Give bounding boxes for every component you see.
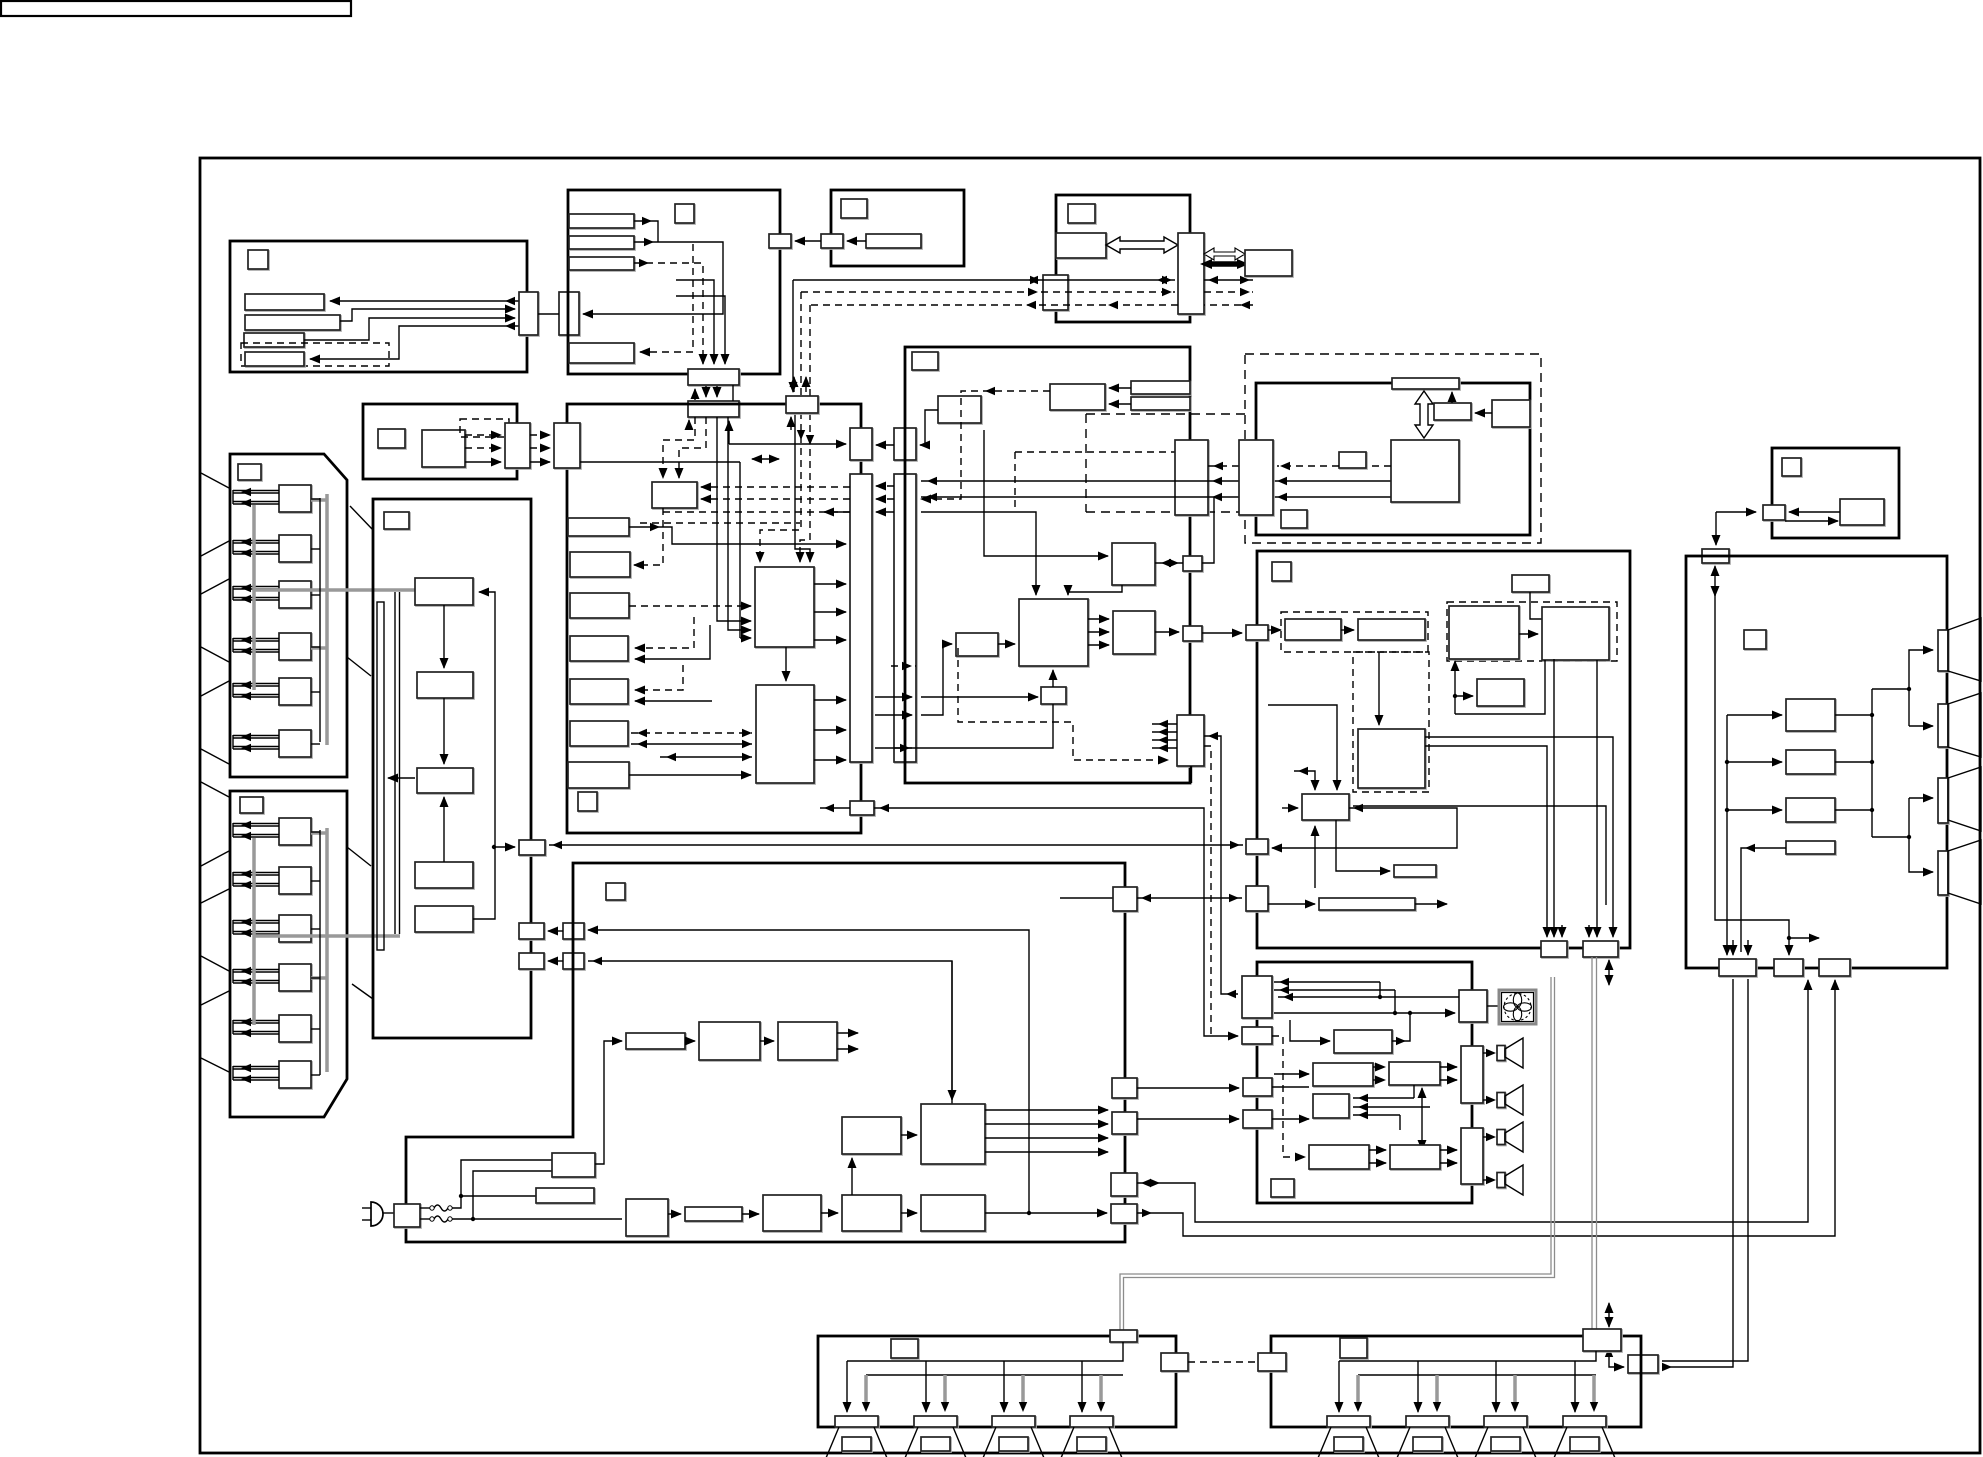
dashed rail top bbox=[1086, 413, 1245, 415]
hollow double arrow H bbox=[1106, 237, 1178, 253]
wire E right box to small box bbox=[1475, 412, 1492, 414]
riser from box3 bbox=[1553, 659, 1555, 880]
block PR outline bbox=[1686, 556, 1947, 968]
dashed rows L-R row2 bbox=[1369, 1149, 1386, 1151]
PT box bbox=[1840, 499, 1884, 525]
DG box B bbox=[1050, 384, 1105, 410]
connector P-left B bbox=[1246, 839, 1268, 854]
P top small box bbox=[1512, 575, 1549, 592]
DG center big box bbox=[1019, 599, 1088, 666]
connector E-left bbox=[1239, 440, 1273, 515]
wire H row3c dashed bbox=[1204, 304, 1253, 306]
P dashed group 3 bbox=[1447, 602, 1617, 661]
wire P connector to box1 bbox=[1268, 629, 1281, 631]
SPR feed arrows 2 bbox=[1417, 1361, 1419, 1412]
PS bar L bbox=[685, 1207, 742, 1221]
T2 gray bus bbox=[325, 828, 329, 1072]
connector SPL-top bbox=[1110, 1330, 1137, 1342]
switch box dashed feeds bbox=[701, 486, 850, 488]
dashed rail lower bbox=[1086, 511, 1243, 513]
SPL output rect 2 bbox=[914, 1416, 957, 1427]
block A dashed group bbox=[241, 343, 389, 366]
wire boxright to conn2 bbox=[1155, 631, 1179, 633]
wire into conn1 left bbox=[494, 846, 515, 848]
block P label bbox=[1272, 562, 1291, 581]
block D label bbox=[578, 792, 597, 811]
E right box bbox=[1492, 400, 1530, 427]
dashed link between speaker blocks bbox=[1188, 1361, 1258, 1363]
wire L3 to P3 bbox=[851, 1158, 853, 1195]
T1 box 2 arrows bbox=[233, 542, 279, 544]
wire H row2c dashed bbox=[1204, 291, 1253, 293]
wire bar to L2 bbox=[742, 1213, 759, 1215]
wire D bar6 bidir rows bbox=[631, 732, 752, 734]
PR box 2 bbox=[1786, 750, 1835, 774]
DG bar 2 bbox=[1131, 397, 1190, 410]
T2 box 3 arrows bbox=[233, 922, 279, 924]
dashed region E bbox=[1245, 354, 1541, 543]
T1 terminal ticks bbox=[201, 473, 229, 488]
arrows into PR bottom connectors bbox=[1732, 940, 1734, 955]
fuse 1 bbox=[434, 1205, 448, 1211]
PS right connector c2 bbox=[1112, 1078, 1137, 1098]
P dashed group 2 bbox=[1353, 652, 1429, 792]
wire L3 to L4 bbox=[901, 1212, 917, 1214]
E dashed row 2 bbox=[1277, 465, 1339, 467]
block B bar 1 bbox=[569, 214, 634, 228]
block SPR label bbox=[1340, 1338, 1367, 1358]
bigbox1 to bigbox2 bbox=[785, 647, 787, 681]
T2 box 4 arrows bbox=[233, 971, 279, 973]
SPR output rect 1 bbox=[1327, 1416, 1370, 1427]
SPR output rect 2 bbox=[1406, 1416, 1449, 1427]
SPR feed arrows 4 bbox=[1574, 1361, 1576, 1412]
vertical pair driver-bar bbox=[1314, 826, 1316, 888]
block D bar3 bbox=[570, 593, 629, 618]
PS box L4 bbox=[921, 1195, 985, 1231]
T1 box 4 bbox=[279, 633, 311, 660]
dashed rows L-R row1 bbox=[1373, 1066, 1385, 1068]
DG bottom small box bbox=[1041, 687, 1066, 704]
speaker AU3 bbox=[1497, 1130, 1505, 1145]
wire A bar3 to connector bbox=[304, 318, 515, 340]
wires AC to relay bbox=[420, 1207, 430, 1209]
Aboard right loop bbox=[473, 592, 495, 919]
wire B vertical bus 2 bbox=[676, 296, 725, 364]
SPR feed arrows 1 bbox=[1338, 1361, 1340, 1412]
T1 box 4 arrows bbox=[233, 640, 279, 642]
wire conn1 riser bbox=[1202, 497, 1214, 563]
PR box4 stub bbox=[1741, 848, 1786, 952]
wire between connectors bbox=[538, 313, 559, 315]
P4 output arrows bbox=[985, 1109, 1108, 1111]
wire L2 to L3 bbox=[821, 1212, 838, 1214]
SPR output rect 4 bbox=[1563, 1416, 1606, 1427]
T2 box 1 arrows bbox=[233, 825, 279, 827]
wire DG boxA to connector bbox=[920, 410, 938, 445]
block PT label bbox=[1782, 458, 1801, 476]
amp connector 2 bbox=[1461, 1128, 1483, 1184]
P bottom connector 1 bbox=[1541, 941, 1567, 957]
dashed route bottom bbox=[958, 648, 1168, 760]
T2 box 5 arrows bbox=[233, 1022, 279, 1024]
DG box A bbox=[938, 396, 981, 423]
SPR internal bus bbox=[1339, 1351, 1596, 1361]
riser into bus2 bottom bbox=[688, 420, 690, 430]
block A label bbox=[248, 250, 268, 269]
wire into thin box bbox=[1336, 820, 1390, 871]
wire H row1c bbox=[1204, 279, 1253, 281]
connector D-bottom-right bbox=[850, 801, 874, 815]
block A bar 4 bbox=[245, 352, 304, 366]
wire B bar3 dashed down bbox=[634, 263, 703, 364]
wire row into bottom box bbox=[921, 696, 1038, 698]
connector B-right bbox=[769, 234, 791, 248]
PR box 3 bbox=[1786, 798, 1835, 822]
T1 box 3 arrows bbox=[233, 588, 279, 590]
wire A bar2 to connector bbox=[340, 309, 515, 321]
wire into driver left bbox=[1282, 807, 1298, 809]
wire into small box bbox=[921, 644, 952, 715]
SPL output rect 3 bbox=[992, 1416, 1035, 1427]
block B bar 3 bbox=[569, 257, 634, 270]
wire D bar1 route bbox=[629, 527, 846, 544]
speaker PR4 bbox=[1938, 851, 1948, 895]
SPR conn side link bbox=[1609, 1351, 1624, 1367]
wire B vertical bus 1 bbox=[676, 280, 714, 364]
wire DG boxB dashed left bbox=[921, 391, 1050, 499]
PS relay box bbox=[552, 1153, 595, 1177]
block P outline bbox=[1257, 551, 1630, 948]
Aboard narrow strip bbox=[377, 602, 384, 950]
P driver box bbox=[1302, 794, 1349, 820]
connector X right of SPR bbox=[1628, 1355, 1658, 1373]
risers PR conn1 to conn X bbox=[1664, 979, 1733, 1367]
polygon T1 outline bbox=[230, 454, 347, 777]
T2 box 2 bbox=[279, 867, 311, 894]
polygon T2 label bbox=[240, 797, 263, 813]
PS right connector c1 bbox=[1113, 887, 1137, 911]
wires bigbox right bbox=[1425, 737, 1613, 937]
SPL speaker 4 bbox=[1061, 1427, 1122, 1457]
hollow vertical double arrow bbox=[1415, 391, 1433, 438]
connector PR-top bbox=[1702, 549, 1729, 563]
connector PT bbox=[1763, 505, 1785, 520]
thick double arrow to external box bbox=[1207, 261, 1242, 267]
E small box K bbox=[1339, 452, 1366, 468]
wire boxT out bbox=[1392, 1013, 1410, 1041]
stub D bottom-right conn bbox=[820, 807, 850, 809]
T1 box 5 bbox=[279, 678, 311, 705]
wire into fanbox lower bbox=[1274, 1012, 1455, 1014]
bigbox2 right to connector bbox=[814, 699, 846, 701]
wire c3 to audio conn4 bbox=[1137, 1118, 1239, 1120]
wire C to B connector bbox=[795, 240, 821, 242]
T1 box 1 arrows bbox=[233, 492, 279, 494]
DG scaler box bbox=[1112, 543, 1155, 585]
connector DG-top bbox=[1175, 440, 1208, 515]
wire U1 to U2 bbox=[760, 1040, 774, 1042]
block AU label bbox=[1271, 1179, 1294, 1197]
T1 gray bus bbox=[325, 494, 329, 745]
connector DG-left small bbox=[894, 428, 916, 460]
wire into scaler bbox=[984, 430, 1108, 556]
arrows above top bus bbox=[793, 377, 795, 392]
arrows out of bottom connector bbox=[1152, 723, 1177, 725]
arrows between bus boxes bbox=[694, 389, 696, 400]
wire into boxT bbox=[1290, 1020, 1330, 1041]
speaker PR1 bbox=[1938, 630, 1948, 671]
block D big box 1 bbox=[755, 567, 814, 647]
block D bar7 bbox=[568, 762, 629, 788]
PR bottom connector 1 bbox=[1719, 959, 1756, 976]
double arrow below PR-top conn bbox=[1714, 566, 1716, 596]
block D bar5 bbox=[570, 679, 628, 704]
wires into bigbox1 left bbox=[739, 462, 741, 638]
DG box right bbox=[1113, 611, 1155, 654]
double arrow below conn2 bbox=[1608, 960, 1610, 985]
T1 box 6 bbox=[279, 730, 311, 757]
connector DG-left tall bbox=[894, 474, 916, 762]
connector AU 3 bbox=[1243, 1078, 1272, 1096]
bus box 2 bbox=[688, 401, 739, 417]
P box 2 bbox=[1358, 619, 1425, 640]
rows DG-top to E connector bbox=[1208, 465, 1239, 467]
T2 box 4 bbox=[279, 964, 311, 991]
amp connector 1 bbox=[1461, 1046, 1483, 1103]
stub arrow above driver bbox=[1294, 771, 1315, 790]
block PS label bbox=[606, 883, 625, 900]
SPL output rect 4 bbox=[1070, 1416, 1113, 1427]
block A2 outline bbox=[363, 404, 517, 479]
block SPL outline bbox=[818, 1336, 1176, 1427]
Aboard box 4 bbox=[415, 862, 473, 888]
P box 3 bbox=[1449, 606, 1519, 659]
T1 box 3 bbox=[279, 581, 311, 608]
PS big box P4 bbox=[921, 1104, 985, 1164]
wire driver loop right bbox=[1272, 808, 1457, 848]
block Aboard outline bbox=[373, 499, 531, 1038]
dashed rail 452 vertical bbox=[1014, 452, 1016, 512]
rows between tall connectors bbox=[876, 485, 894, 487]
dashed feed row2 bbox=[1272, 1036, 1305, 1157]
Aboard inner vertical pair bbox=[394, 592, 396, 934]
block SPR outline bbox=[1271, 1336, 1641, 1427]
block C bar bbox=[866, 234, 921, 248]
PS box L3 bbox=[842, 1195, 901, 1231]
thin hollow double arrow bbox=[1204, 248, 1245, 260]
wire PT conn left riser bbox=[1715, 512, 1717, 545]
connector D top bus bbox=[786, 396, 818, 413]
block AU outline bbox=[1257, 962, 1472, 1203]
speaker PR2 bbox=[1938, 704, 1948, 747]
PR dangling arrow bbox=[1789, 937, 1819, 939]
wire small connectors bbox=[876, 444, 894, 446]
block D bar1 bbox=[568, 518, 629, 536]
speaker PR3 bbox=[1938, 778, 1948, 823]
dashed rows R-amp row1 bbox=[1440, 1066, 1457, 1068]
block D bar4 bbox=[570, 636, 628, 661]
block B bar 4 bbox=[569, 343, 634, 363]
PS box L1 bbox=[626, 1199, 668, 1236]
bus box2 risers into D bbox=[663, 417, 695, 478]
stub into c1 bbox=[1060, 897, 1113, 899]
block D bar6 bbox=[570, 721, 628, 746]
wire connA to driver top bbox=[1268, 705, 1337, 790]
wire riser2 arrow bbox=[951, 961, 953, 1100]
PR box 1 bbox=[1786, 699, 1835, 731]
gray rail P conn2 to SPR bbox=[1591, 957, 1593, 1329]
wire A bar1 to connector bbox=[330, 300, 519, 302]
connector Aboard-right 1 bbox=[519, 840, 545, 855]
connector DG-right 1 bbox=[1183, 556, 1202, 571]
block A2 dashed box bbox=[460, 419, 509, 437]
SPL feed arrows 1 bbox=[846, 1361, 848, 1412]
riser from box4 bbox=[1596, 660, 1598, 880]
connector H-left bbox=[1043, 275, 1068, 310]
wire P3 to P4 bbox=[901, 1134, 917, 1136]
wire relay riser bbox=[595, 1041, 622, 1164]
dashed rail vertical bbox=[1085, 414, 1087, 512]
SPL feed arrows 3 bbox=[1003, 1361, 1005, 1412]
wire H row3 dashed bbox=[810, 304, 1178, 306]
wire bigbox top feed bbox=[921, 512, 1036, 595]
wire into boxL bbox=[1274, 1073, 1309, 1075]
PS box U1 bbox=[699, 1022, 760, 1060]
Aboard vertical arrows bbox=[443, 605, 445, 668]
block B bar 2 bbox=[569, 236, 634, 249]
wire E small box up bbox=[1451, 392, 1453, 403]
T2 box 6 bbox=[279, 1061, 311, 1088]
wire D bar7 to bigbox2 bbox=[629, 774, 751, 776]
wire bigbox feed bbox=[1378, 652, 1380, 725]
wire row into connA-small bbox=[729, 443, 846, 445]
P long bar bbox=[1319, 898, 1415, 910]
wire bar right arrow bbox=[1415, 903, 1447, 905]
double arrow vertical bbox=[1421, 1088, 1423, 1150]
connector AU 4 bbox=[1243, 1110, 1272, 1128]
wire B bar1 to junction bbox=[634, 221, 658, 242]
wire B bar2 junction to conn2 bbox=[583, 242, 723, 314]
T2 box 5 bbox=[279, 1015, 311, 1042]
block A2 label bbox=[378, 429, 405, 448]
SPL speaker 1 bbox=[826, 1427, 887, 1457]
wire Aboard b3 to strip bbox=[388, 777, 415, 779]
dashed weave row 2 bbox=[640, 522, 800, 524]
connector AU 2 bbox=[1242, 1027, 1272, 1044]
bus box 1 bbox=[688, 369, 739, 385]
PR bottom connector 2 bbox=[1774, 959, 1803, 976]
wire D bar3 dashed to bigbox1 bbox=[629, 605, 751, 607]
wire A bar4 to connector bbox=[310, 326, 519, 359]
wire driver long right bbox=[1353, 806, 1606, 905]
wire riser to top right box bbox=[1454, 661, 1456, 714]
PS right connector c3 bbox=[1112, 1112, 1137, 1134]
wires PT conn to box bbox=[1789, 511, 1840, 513]
bigbox1 right to connector bbox=[814, 583, 846, 585]
SPR speaker 2 bbox=[1397, 1427, 1458, 1457]
PR top riser bbox=[1715, 590, 1789, 955]
feeds into AU tall connector bbox=[1274, 981, 1380, 983]
wire H row1 bbox=[793, 279, 1175, 281]
riser to top connectors bbox=[588, 930, 1029, 1213]
connector pair row3 bbox=[519, 953, 544, 969]
long wire y808 route bbox=[874, 808, 1238, 1036]
T1 box 1 bbox=[279, 485, 311, 512]
solid rail down 0 bbox=[792, 280, 794, 392]
connector H-right tall bbox=[1178, 233, 1204, 314]
block A bar 3 bbox=[244, 333, 304, 347]
arrows into bottom connectors bbox=[1553, 880, 1555, 937]
P box 1 bbox=[1285, 619, 1341, 640]
wire B1 to U1 bbox=[685, 1040, 695, 1042]
dashed weave row 1 bbox=[663, 511, 850, 513]
SPL output rect 1 bbox=[835, 1416, 878, 1427]
P big box (in dashed) bbox=[1358, 729, 1425, 788]
block A outline bbox=[230, 241, 527, 372]
speaker AU4 bbox=[1497, 1173, 1505, 1188]
title box bbox=[1, 1, 351, 16]
solid feed bigbox1 top bbox=[795, 413, 810, 562]
arrows below top bus bbox=[790, 417, 792, 430]
connector DG-right 2 bbox=[1183, 626, 1202, 641]
external box bbox=[1245, 250, 1292, 276]
connector D-left bbox=[554, 423, 580, 468]
connector P-left A bbox=[1246, 625, 1268, 640]
SPR speaker 4 bbox=[1554, 1427, 1615, 1457]
T2 box 2 arrows bbox=[233, 874, 279, 876]
PR thin box 4 bbox=[1786, 841, 1835, 854]
T2 black chain bbox=[319, 830, 321, 1075]
long rows E to DG tall connector bbox=[921, 480, 1391, 482]
AU fan feed box bbox=[1459, 990, 1487, 1022]
wire c5 to H2 bbox=[1137, 980, 1835, 1236]
SPR output rect 3 bbox=[1484, 1416, 1527, 1427]
AU box T bbox=[1334, 1030, 1392, 1053]
connector A-right bbox=[519, 292, 538, 335]
AC plug bbox=[371, 1202, 383, 1226]
wire L4 to right connector bbox=[985, 1212, 1107, 1214]
wire c4 to H1 bbox=[1137, 980, 1808, 1222]
wire scaler to bigbox top bbox=[1068, 585, 1122, 595]
outer border bbox=[200, 158, 1980, 1453]
T1 box 2 bbox=[279, 535, 311, 562]
connector B-left bbox=[559, 292, 579, 335]
DG bar 1 bbox=[1131, 381, 1190, 394]
PS box L2 bbox=[763, 1195, 821, 1231]
block A2 box bbox=[422, 430, 465, 467]
wire conn3 row bbox=[1272, 1086, 1309, 1088]
connector SPR-left bbox=[1258, 1353, 1286, 1371]
connector AU tall bbox=[1242, 976, 1272, 1018]
E big box bbox=[1391, 440, 1459, 502]
PR bottom connector 3 bbox=[1819, 959, 1850, 976]
riser 2 bbox=[588, 961, 952, 1104]
T1 diagonal links bbox=[350, 506, 373, 530]
SPL feed arrows 2 bbox=[925, 1361, 927, 1412]
SPR speaker 1 bbox=[1318, 1427, 1379, 1457]
fan bbox=[1499, 990, 1536, 1024]
wire top box down bbox=[1530, 592, 1542, 619]
AU box L row2 bbox=[1309, 1145, 1369, 1169]
wire D bar4 feeds bbox=[635, 617, 694, 648]
wire B bar4 dashed from right bbox=[640, 244, 693, 352]
wire H row2 dashed bbox=[801, 291, 1175, 293]
block C label bbox=[841, 199, 867, 218]
block PS outline bbox=[406, 863, 1125, 1242]
dashed rail down 2 bbox=[800, 305, 810, 562]
fuse 2 bbox=[434, 1216, 448, 1222]
